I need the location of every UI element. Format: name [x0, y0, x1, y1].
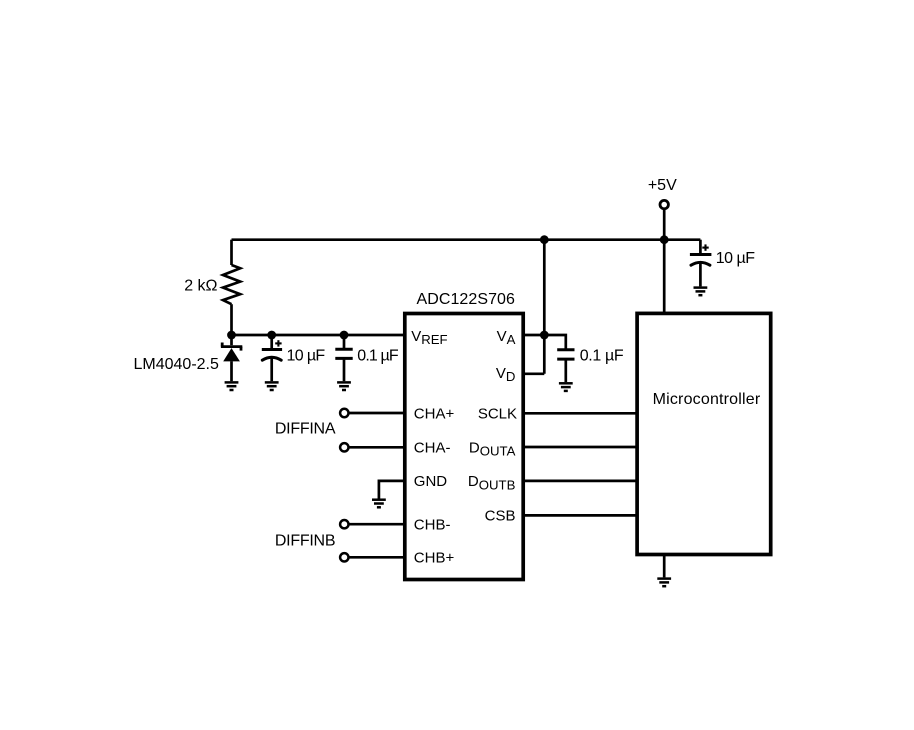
svg-text:10 µF: 10 µF — [287, 347, 326, 364]
svg-text:LM4040-2.5: LM4040-2.5 — [134, 356, 219, 373]
svg-text:ADC122S706: ADC122S706 — [417, 291, 515, 308]
svg-text:CHA+: CHA+ — [414, 406, 455, 423]
svg-text:CHB+: CHB+ — [414, 550, 455, 567]
svg-text:GND: GND — [414, 473, 448, 490]
svg-text:+5V: +5V — [648, 177, 677, 194]
svg-text:DIFFINA: DIFFINA — [275, 421, 336, 438]
svg-text:10 µF: 10 µF — [716, 250, 756, 267]
svg-text:CSB: CSB — [485, 508, 516, 525]
svg-text:0.1 µF: 0.1 µF — [580, 347, 624, 364]
svg-text:Microcontroller: Microcontroller — [653, 391, 761, 408]
svg-text:DIFFINB: DIFFINB — [275, 533, 336, 550]
svg-text:0.1 µF: 0.1 µF — [357, 347, 399, 364]
svg-text:CHB-: CHB- — [414, 517, 451, 534]
svg-text:SCLK: SCLK — [478, 406, 517, 423]
svg-text:2 kΩ: 2 kΩ — [184, 277, 217, 294]
svg-text:CHA-: CHA- — [414, 439, 451, 456]
